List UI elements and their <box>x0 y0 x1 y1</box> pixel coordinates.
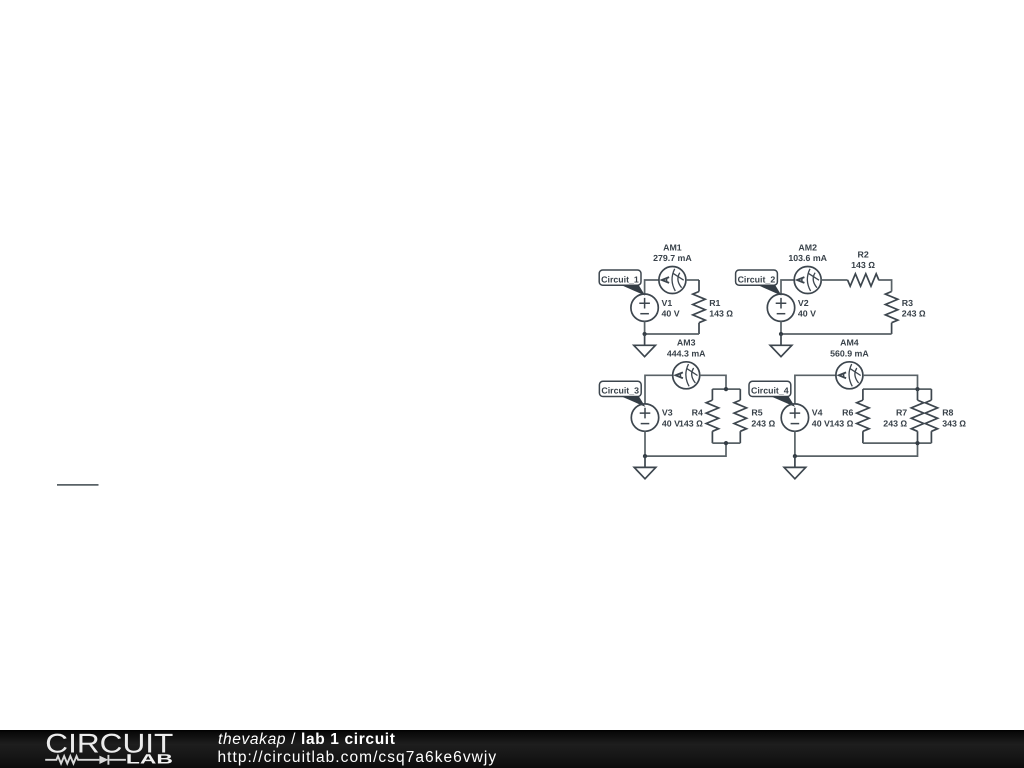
junction <box>779 332 783 336</box>
CircuitLab logo <box>0 730 200 768</box>
wire <box>645 280 659 294</box>
svg-text:243 Ω: 243 Ω <box>751 418 775 428</box>
wire <box>645 321 699 334</box>
svg-text:143 Ω: 143 Ω <box>679 418 703 428</box>
node Circuit_1 <box>599 270 645 296</box>
svg-text:V4: V4 <box>812 408 823 418</box>
svg-text:444.3 mA: 444.3 mA <box>667 348 706 358</box>
wire <box>795 375 836 404</box>
resistor R2 <box>848 274 879 286</box>
svg-text:V1: V1 <box>662 298 673 308</box>
junction <box>724 387 728 391</box>
junction <box>915 387 919 391</box>
wire <box>700 375 741 389</box>
svg-text:R2: R2 <box>857 249 868 259</box>
wire <box>644 431 646 456</box>
voltage source V2 <box>767 294 794 321</box>
ammeter AM4 <box>836 362 863 389</box>
resistor R5 <box>734 389 746 443</box>
svg-text:40 V: 40 V <box>812 418 830 428</box>
resistor R4 <box>706 389 718 443</box>
wire <box>781 280 794 294</box>
svg-text:R1: R1 <box>709 298 720 308</box>
resistor R7 <box>911 389 923 443</box>
ammeter AM2 <box>794 267 821 294</box>
voltage source V3 <box>631 404 658 431</box>
svg-text:103.6 mA: 103.6 mA <box>788 253 827 263</box>
svg-text:143 Ω: 143 Ω <box>709 308 733 318</box>
svg-text:Circuit_3: Circuit_3 <box>601 386 639 396</box>
svg-text:R7: R7 <box>896 408 907 418</box>
svg-text:143 Ω: 143 Ω <box>830 418 854 428</box>
voltage source V4 <box>781 404 808 431</box>
ground <box>784 456 806 479</box>
svg-text:Circuit_4: Circuit_4 <box>751 386 789 396</box>
svg-text:243 Ω: 243 Ω <box>883 418 907 428</box>
wire <box>795 443 932 456</box>
node Circuit_2 <box>736 270 782 296</box>
svg-text:AM2: AM2 <box>798 242 817 252</box>
ammeter AM1 <box>659 267 686 294</box>
svg-text:AM3: AM3 <box>677 338 696 348</box>
wire <box>781 321 892 334</box>
wire <box>57 484 99 486</box>
ammeter AM3 <box>673 362 700 389</box>
footer url <box>218 749 498 767</box>
resistor R6 <box>857 389 869 443</box>
svg-text:560.9 mA: 560.9 mA <box>830 348 869 358</box>
resistor R3 <box>885 292 897 335</box>
svg-text:343 Ω: 343 Ω <box>942 418 966 428</box>
ground <box>770 334 792 357</box>
node Circuit_4 <box>749 381 795 407</box>
wire <box>794 431 796 456</box>
svg-text:AM1: AM1 <box>663 242 682 252</box>
svg-text:R3: R3 <box>902 298 913 308</box>
svg-text:279.7 mA: 279.7 mA <box>653 253 692 263</box>
svg-text:LAB: LAB <box>126 752 173 767</box>
wire <box>645 443 740 456</box>
svg-text:40 V: 40 V <box>798 308 816 318</box>
junction <box>793 454 797 458</box>
junction <box>915 441 919 445</box>
svg-text:Circuit_1: Circuit_1 <box>601 274 639 284</box>
resistor R1 <box>693 280 705 334</box>
svg-text:V3: V3 <box>662 408 673 418</box>
junction <box>724 441 728 445</box>
node Circuit_3 <box>599 381 645 407</box>
wire <box>686 279 699 281</box>
wire <box>821 279 847 281</box>
svg-text:R5: R5 <box>751 408 762 418</box>
svg-text:40 V: 40 V <box>662 308 680 318</box>
svg-text:R4: R4 <box>692 408 703 418</box>
ground <box>634 334 656 357</box>
junction <box>643 454 647 458</box>
voltage source V1 <box>631 294 658 321</box>
svg-text:AM4: AM4 <box>840 338 859 348</box>
svg-text:Circuit_2: Circuit_2 <box>738 274 776 284</box>
svg-text:R8: R8 <box>942 408 953 418</box>
svg-text:143 Ω: 143 Ω <box>851 260 875 270</box>
svg-text:V2: V2 <box>798 298 809 308</box>
footer title <box>218 731 396 749</box>
svg-text:R6: R6 <box>842 408 853 418</box>
svg-text:40 V: 40 V <box>662 418 680 428</box>
wire <box>879 280 892 292</box>
ground <box>634 456 656 479</box>
junction <box>643 332 647 336</box>
svg-text:243 Ω: 243 Ω <box>902 308 926 318</box>
resistor R8 <box>925 389 937 443</box>
footer bar <box>0 730 1024 768</box>
wire <box>863 375 932 389</box>
wire <box>645 375 673 404</box>
